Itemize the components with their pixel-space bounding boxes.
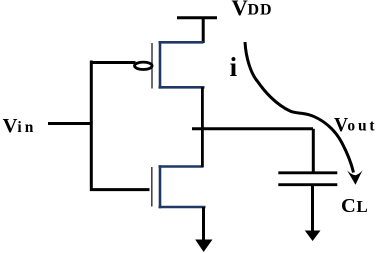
transistor M2 (NMOS) gate bar — [151, 167, 153, 207]
arrowhead of current curve — [347, 170, 363, 185]
svg-text:V: V — [3, 115, 18, 137]
ground arrow below NMOS — [195, 240, 212, 253]
svg-text:V: V — [334, 115, 348, 136]
wire PMOS drain to output node — [201, 87, 204, 167]
wire Vin to gate node — [48, 122, 93, 125]
wire gate node to PMOS bubble — [90, 61, 136, 64]
transistor M1 (PMOS) channel — [159, 41, 205, 89]
wire output down to capacitor — [312, 129, 315, 173]
wire VDD to PMOS source — [202, 18, 205, 43]
wire output node to Vout / CL — [192, 127, 313, 130]
wire input vertical — [90, 61, 93, 192]
capacitor CL top plate — [278, 171, 337, 174]
svg-text:C: C — [341, 195, 356, 217]
svg-text:in: in — [17, 119, 36, 136]
wire capacitor bottom down — [311, 185, 314, 233]
capacitor CL bottom plate — [278, 183, 337, 186]
svg-text:out: out — [347, 118, 377, 135]
PMOS gate bubble — [135, 62, 153, 69]
svg-text:L: L — [356, 197, 367, 216]
ground arrow below capacitor — [305, 231, 321, 242]
current curve arrow — [245, 42, 354, 173]
wire gate node to NMOS gate — [90, 188, 150, 191]
VDD rail bar — [177, 16, 217, 19]
svg-text:V: V — [232, 0, 248, 20]
svg-text:DD: DD — [248, 1, 273, 18]
svg-text:i: i — [230, 52, 238, 82]
wire NMOS source down — [202, 207, 205, 242]
transistor M1 (PMOS) gate bar — [151, 43, 153, 89]
transistor M2 (NMOS) channel — [159, 165, 206, 208]
